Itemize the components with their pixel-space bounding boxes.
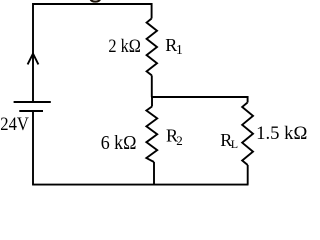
battery V1 top plate (long, positive) [14, 101, 51, 103]
wire: left rail lower segment from battery to bottom wire [32, 111, 34, 185]
wire: top wire from left rail to R1 top, and left rail upper segment [33, 4, 152, 102]
resistor R2 zigzag [146, 107, 157, 163]
cropped letter g (text above circuit, cut off at top edge) [91, 0, 101, 2]
svg-text:1: 1 [176, 43, 183, 58]
svg-text:1.5 kΩ: 1.5 kΩ [256, 124, 307, 144]
wire: R2 bottom lead [153, 162, 155, 185]
svg-text:L: L [231, 137, 238, 151]
svg-text:24V: 24V [0, 114, 29, 135]
resistor R1 zigzag [147, 19, 157, 76]
wire: bottom wire [32, 184, 248, 186]
svg-text:2: 2 [176, 133, 183, 148]
wire: R1 bottom lead, middle wire to RL branch, RL top lead [151, 75, 248, 102]
battery V1 bottom plate (short, negative) [19, 110, 43, 112]
resistor RL zigzag [242, 103, 253, 166]
svg-text:2 kΩ: 2 kΩ [108, 37, 140, 57]
svg-text:6 kΩ: 6 kΩ [101, 132, 137, 154]
wire: R2 top lead from middle node [151, 96, 153, 107]
current arrow on left wire (pointing up) [28, 54, 39, 65]
wire: RL bottom lead [247, 165, 249, 185]
